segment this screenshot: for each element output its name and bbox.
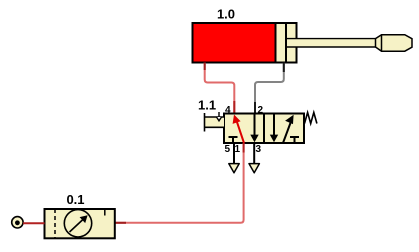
flow meter 0.1 gauge dial bbox=[64, 210, 91, 237]
cylinder 1.0 pressurized chamber (red) bbox=[194, 24, 276, 62]
cylinder 1.0 piston rod bbox=[287, 39, 376, 47]
valve left box: red flow arrow 1 to 4 bbox=[233, 115, 244, 144]
wire: cylinder rod port to valve port 2 (gray) bbox=[255, 63, 284, 114]
flow meter 0.1 needle bbox=[70, 215, 88, 232]
wire stub black at valve port 2 bbox=[254, 102, 256, 114]
valve manual actuator (left) bbox=[205, 112, 225, 132]
svg-text:1: 1 bbox=[234, 144, 240, 155]
svg-text:5: 5 bbox=[224, 144, 230, 155]
flow meter 0.1 tick mark bbox=[104, 209, 106, 216]
wire stub dark red at meter 0.1 output bbox=[115, 222, 126, 224]
cylinder 1.0 rod end knob bbox=[376, 35, 413, 52]
exhaust triangle port 5 bbox=[229, 164, 239, 173]
wire stub dark red at valve port 1 bbox=[243, 143, 245, 153]
svg-text:0.1: 0.1 bbox=[66, 192, 84, 207]
valve left box: arrow 2 to 3 (down) bbox=[250, 115, 258, 143]
flow meter 0.1 dashed separator bbox=[54, 209, 56, 238]
valve return spring (right) bbox=[305, 113, 317, 124]
valve 1.1 body (two position boxes) bbox=[224, 114, 304, 144]
svg-text:3: 3 bbox=[256, 144, 262, 155]
cylinder 1.0 piston bbox=[276, 24, 287, 62]
wire stub dark red at cylinder cap port bbox=[204, 63, 206, 71]
wire: meter 0.1 to valve port 1 (pressurized, salmon) bbox=[115, 143, 244, 223]
cylinder 1.0 body bbox=[193, 23, 297, 63]
exhaust stub port 5 bbox=[233, 143, 235, 164]
compressed air source bbox=[12, 217, 23, 228]
valve right box: arrow 1 to 2 (diagonal up) bbox=[283, 115, 294, 143]
wire: cylinder cap port to valve port 4 (pressurized, salmon) bbox=[205, 63, 235, 114]
svg-text:1.1: 1.1 bbox=[198, 98, 216, 113]
svg-text:4: 4 bbox=[225, 105, 231, 116]
svg-text:1.0: 1.0 bbox=[217, 7, 235, 22]
exhaust triangle port 3 bbox=[249, 164, 259, 173]
wire stub dark red at valve port 4 bbox=[233, 101, 235, 114]
exhaust stub port 3 bbox=[253, 143, 255, 164]
flow meter 0.1 body bbox=[45, 209, 115, 238]
svg-text:2: 2 bbox=[258, 105, 264, 116]
wire: source to meter 0.1 (crimson) bbox=[23, 222, 44, 224]
wire stub black at cylinder rod port bbox=[283, 63, 285, 73]
valve right box: blocked port 3 symbol bbox=[290, 137, 299, 143]
valve left box: blocked port 5 symbol bbox=[229, 137, 238, 143]
valve right box: arrow 4 to 5 (down) bbox=[270, 115, 278, 143]
